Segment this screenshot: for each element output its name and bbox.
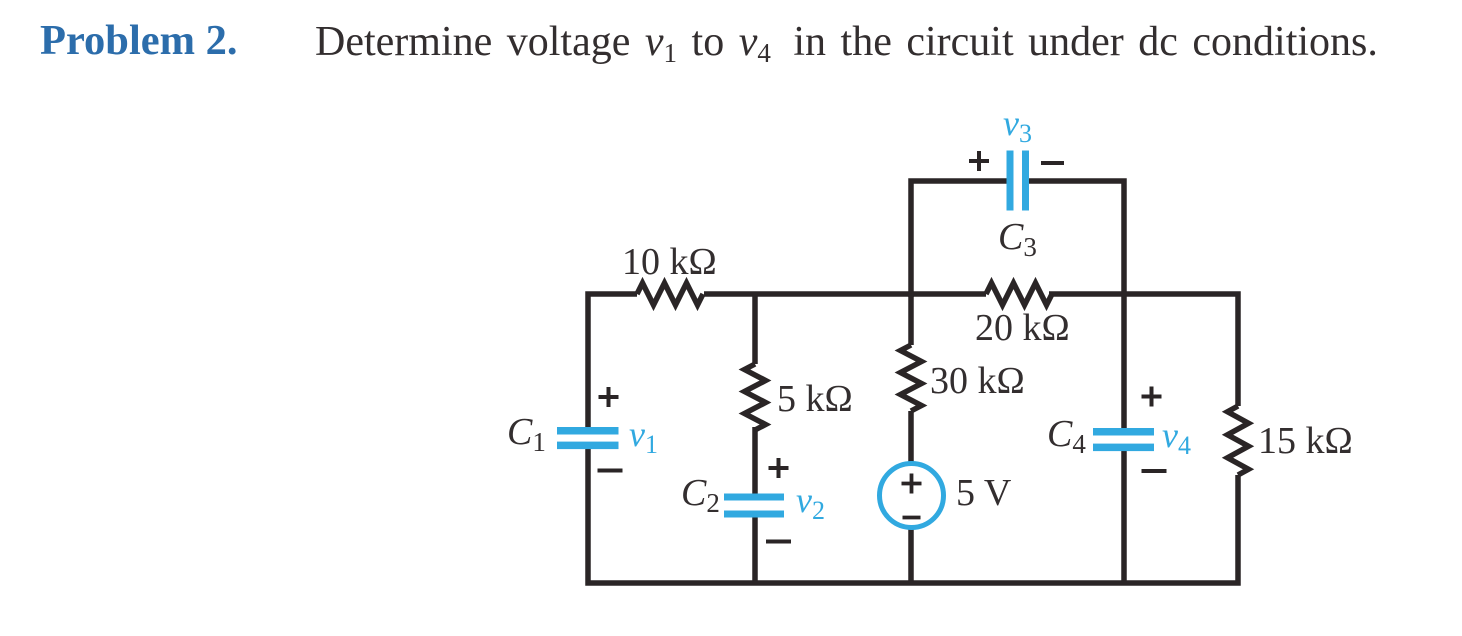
problem statement text	[315, 21, 1378, 63]
svg-text:v2: v2	[796, 480, 825, 525]
minus sign inside source	[903, 516, 921, 520]
resistor 20 kOhm zigzag	[986, 283, 1052, 305]
wire: C4 branch bottom	[1121, 447, 1127, 583]
wire: C3 loop top-right segment and right vertical down	[1024, 181, 1124, 294]
svg-text:C3: C3	[998, 216, 1037, 262]
title "Problem 2."	[40, 20, 238, 63]
capacitor C1 plates	[557, 427, 619, 435]
wire: top wire right segment, top-right corner, right wire to 15k	[1049, 294, 1238, 406]
svg-text:v1: v1	[629, 414, 658, 459]
wire: 30k branch top	[908, 294, 914, 345]
plus sign of v2	[769, 458, 789, 478]
svg-text:10 kΩ: 10 kΩ	[622, 241, 717, 283]
minus sign of v4	[1142, 469, 1167, 473]
plus sign of v4	[1142, 387, 1162, 407]
minus sign of v2	[766, 540, 791, 544]
capacitor C4 plates	[1093, 428, 1154, 436]
resistor 15 kOhm zigzag	[1228, 406, 1249, 475]
plus sign of v1	[599, 387, 619, 407]
wire: top-left corner, left wire upper part and top wire to 10k	[588, 294, 637, 432]
svg-text:30 kΩ: 30 kΩ	[930, 360, 1025, 402]
plus sign inside source	[902, 474, 922, 494]
svg-text:v3: v3	[1003, 103, 1032, 148]
svg-text:5 kΩ: 5 kΩ	[777, 378, 853, 420]
wire: C4 branch top	[1121, 294, 1127, 432]
svg-text:C1: C1	[507, 411, 546, 457]
wire: C2 to bottom	[752, 513, 758, 583]
capacitor C3 plates	[1007, 151, 1014, 211]
wire: left wire lower part, bottom wire, right wire lower part	[588, 444, 1238, 583]
resistor 10 kOhm zigzag	[637, 283, 703, 305]
svg-text:C4: C4	[1047, 413, 1086, 459]
svg-text:C2: C2	[681, 472, 720, 518]
svg-text:5 V: 5 V	[956, 472, 1012, 514]
svg-text:v4: v4	[1162, 415, 1191, 460]
resistor 30 kOhm zigzag	[901, 345, 922, 411]
capacitor C2 plates	[724, 494, 784, 501]
wire: 5k branch middle to C2	[752, 427, 758, 498]
wire: top wire middle segment between 10k and 20k	[704, 291, 986, 297]
svg-text:20 kΩ: 20 kΩ	[975, 307, 1070, 349]
resistor 5 kOhm zigzag	[745, 364, 766, 430]
plus sign of v3	[969, 151, 989, 171]
minus sign of v1	[598, 469, 623, 473]
wire: 5k branch top	[752, 294, 758, 364]
minus sign of v3	[1041, 161, 1064, 165]
wire: 30k to 5V source to bottom	[908, 411, 914, 583]
wire: C3 loop left vertical and top-left segment	[911, 181, 1012, 297]
voltage source 5V circle	[880, 464, 944, 528]
svg-text:15 kΩ: 15 kΩ	[1258, 420, 1353, 462]
